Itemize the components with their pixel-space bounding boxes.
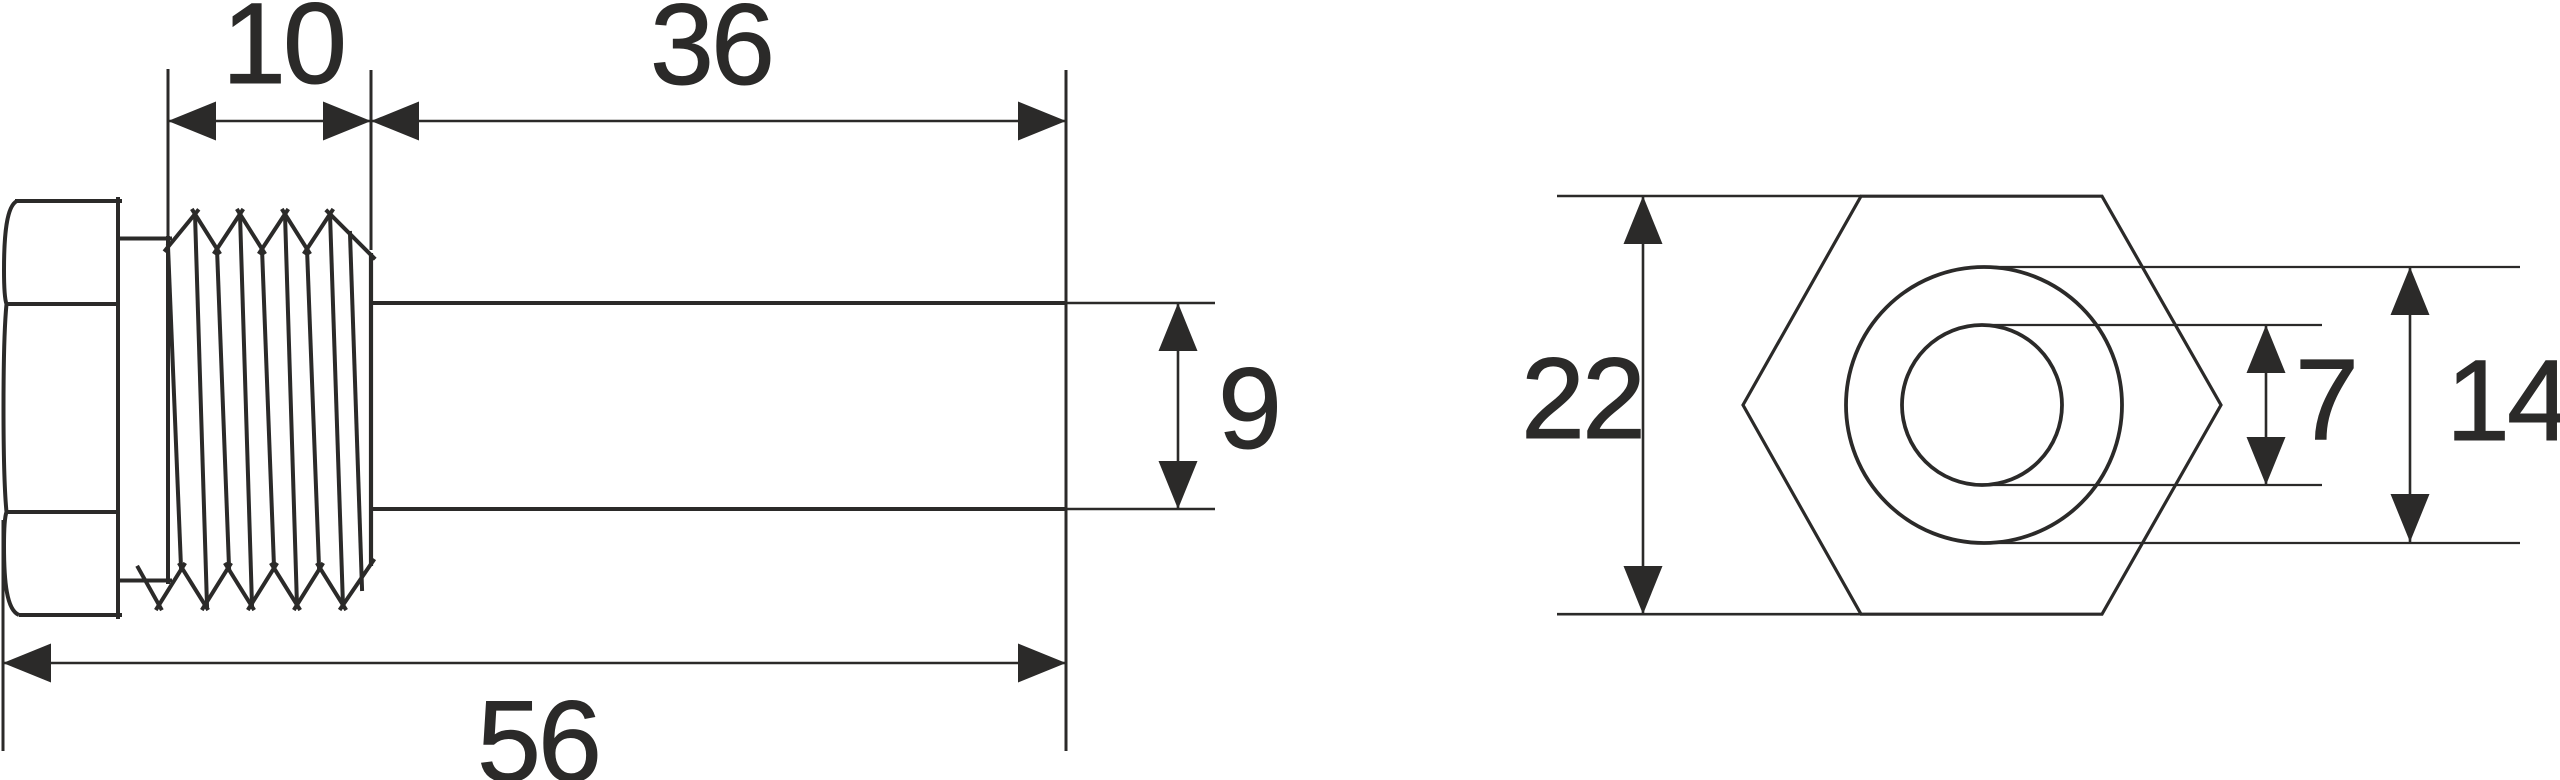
extension line outer circle bottom for dim 14 [1984,542,2520,544]
dimension line 36 [371,102,1066,141]
extension line hexagon bottom for dim 22 [1557,613,1861,616]
outer circle dia 14 [1846,267,2122,543]
shaft outline [371,303,1066,509]
svg-text:56: 56 [477,678,599,780]
svg-text:10: 10 [222,0,344,108]
extension line left of dim 10 [167,69,170,238]
extension line inner circle top for dim 7 [1982,324,2322,326]
dimension line 9 [1159,303,1198,509]
extension line shaft bottom for dim 9 [1066,508,1215,511]
dimension line 10 [168,102,371,141]
thread end line [369,253,373,566]
extension line outer circle top for dim 14 [1984,266,2520,268]
svg-text:36: 36 [650,0,772,109]
svg-text:9: 9 [1218,345,1282,473]
svg-text:22: 22 [1521,335,1643,463]
hexagon end view [1743,196,2221,614]
dimension line 14 [2391,267,2430,542]
dimension line 7 [2247,325,2286,485]
thread crest zigzag top [164,209,375,259]
extension line left end for dim 56 [2,520,5,751]
dimension line 56 [3,644,1066,683]
collar washer face [116,236,172,584]
dimension line 22 [1624,196,1663,614]
extension line hexagon top for dim 22 [1557,195,1861,198]
thread crest zigzag bottom [137,559,374,610]
thread helix flank lines [168,211,362,609]
extension line between dim 10 and 36 [370,70,373,250]
extension line inner circle bottom for dim 7 [1982,484,2322,486]
svg-text:14: 14 [2446,337,2560,465]
inner circle dia 7 [1902,325,2062,485]
extension line shaft top for dim 9 [1066,302,1215,305]
hex head side view [4,197,123,619]
svg-text:7: 7 [2295,336,2359,464]
extension line right end of shaft [1065,70,1068,751]
